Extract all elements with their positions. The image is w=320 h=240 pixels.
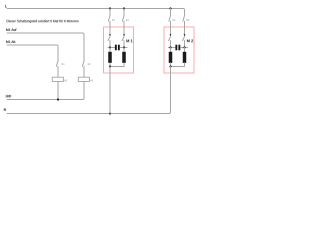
node junction M1 return to N — [109, 112, 111, 114]
wire cap link right M1 — [120, 47, 127, 49]
contact arrow M1 left — [108, 27, 111, 48]
motor winding M1 right — [122, 48, 126, 63]
wire M1 Auf rail — [7, 33, 84, 60]
wire coil K1 to GND corner — [83, 82, 85, 100]
node junction coil K2 to GND — [57, 98, 59, 100]
node junction cap right M2 — [183, 46, 185, 48]
wire N rail — [7, 113, 169, 115]
node junction cap left M2 — [169, 46, 171, 48]
wire chain A to coil K2 — [57, 67, 59, 78]
wire cap link M2 — [169, 47, 176, 49]
contact arrow M1 right — [122, 27, 125, 48]
contact K2 in chain B — [82, 60, 84, 66]
wire GND rail — [7, 99, 83, 101]
wire M2 return to N — [169, 67, 171, 114]
switch K1 — [108, 9, 114, 28]
node junction L to K3 — [169, 7, 171, 9]
wire M1 Ab rail — [7, 45, 58, 60]
annotation: Dieser Schaltungsteil existiert 6 Mal fuer 6 Motoren — [7, 20, 79, 23]
capacitor M2 — [175, 45, 180, 51]
node junction M1 join — [109, 65, 111, 67]
relay coil K2 — [52, 77, 63, 81]
wire cap link right M2 — [181, 47, 188, 49]
node M 1 label — [126, 40, 132, 43]
node M1 Ab label — [6, 41, 15, 43]
wire chain B to coil K1 — [83, 67, 85, 78]
node GND label — [6, 95, 11, 97]
node junction L to K1 — [109, 7, 111, 9]
wire cap link M1 — [108, 47, 115, 49]
wire L rail — [7, 9, 185, 16]
switch K4 — [183, 15, 189, 27]
node junction cap right M1 — [123, 46, 125, 48]
wire M2 winding join — [171, 63, 185, 67]
capacitor M1 — [115, 45, 120, 51]
motor winding M2 right — [183, 48, 187, 63]
node M 2 label — [187, 40, 193, 43]
node junction cap left M1 — [109, 46, 111, 48]
contact arrow M2 left — [169, 27, 172, 48]
node M1 Auf label — [6, 29, 16, 31]
motor module M1 red frame — [104, 27, 134, 73]
wire coil K2 to GND — [57, 82, 59, 100]
relay coil K1 — [78, 77, 89, 81]
motor module M2 red frame — [164, 27, 194, 73]
switch K3 — [169, 9, 175, 28]
contact arrow M2 right — [183, 27, 186, 48]
switch K2 — [122, 9, 128, 28]
wire M1 winding join — [110, 63, 124, 67]
node junction M2 join — [169, 65, 171, 67]
node N label — [4, 108, 6, 110]
wire M1 return to N — [109, 67, 111, 114]
motor winding M2 left — [169, 48, 173, 63]
motor winding M1 left — [108, 48, 112, 63]
node junction L to K2 — [123, 7, 125, 9]
contact K1 in chain A — [56, 60, 58, 66]
node L label — [5, 5, 7, 8]
